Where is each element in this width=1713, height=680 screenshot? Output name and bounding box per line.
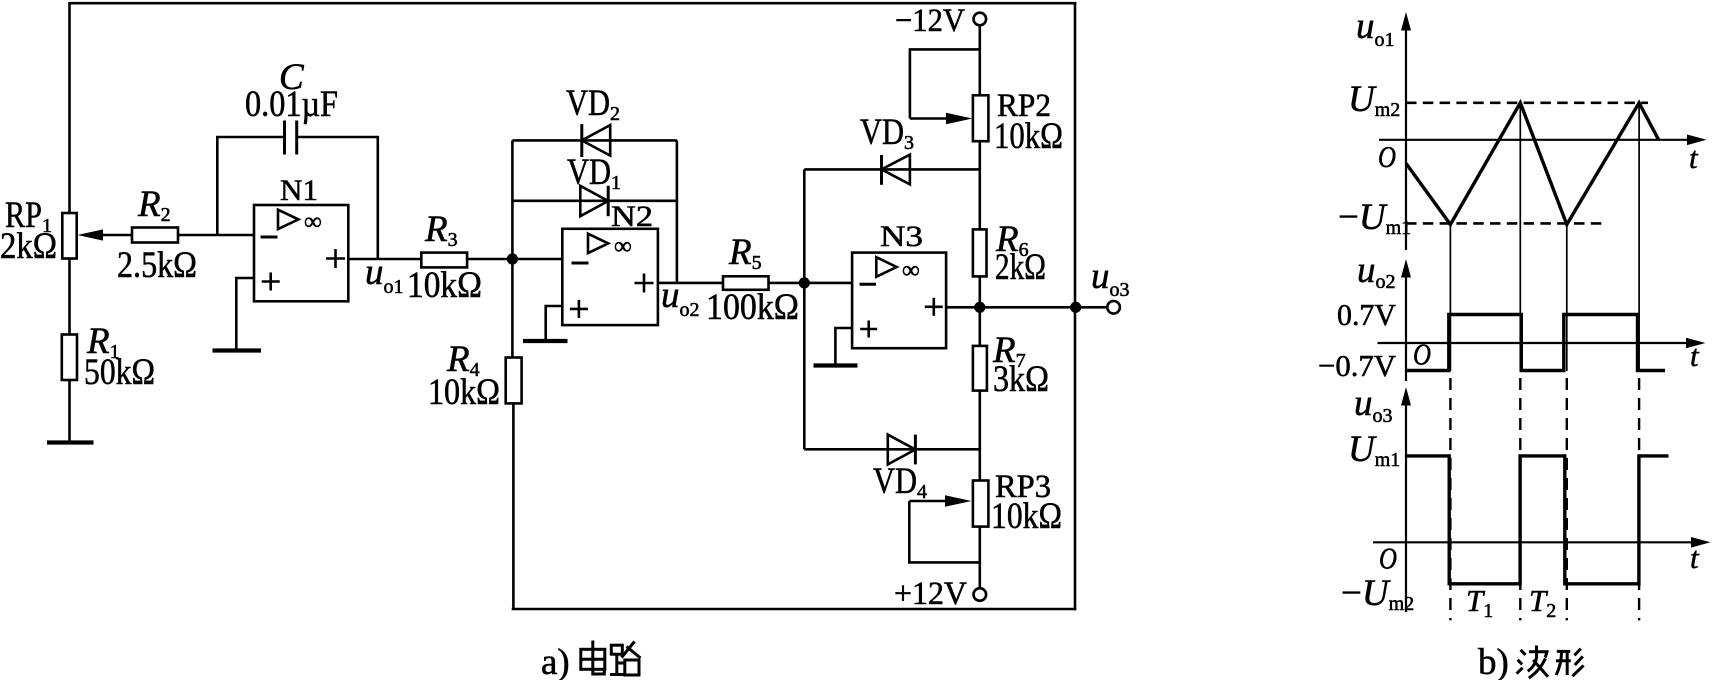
- svg-text:−Um2: −Um2: [1341, 573, 1414, 615]
- potentiometer RP2: [910, 88, 1063, 157]
- wire RP3 wiper short: [909, 501, 980, 562]
- resistor R2: [117, 184, 197, 286]
- diode VD3: [860, 112, 914, 185]
- svg-text:−0.7V: −0.7V: [1318, 348, 1397, 383]
- svg-text:O: O: [1413, 337, 1431, 372]
- wire N3 noninverting input to ground: [835, 328, 852, 364]
- wire left bus to RP1: [68, 2, 71, 214]
- svg-text:+12V: +12V: [894, 576, 967, 612]
- svg-text:0.7V: 0.7V: [1337, 297, 1397, 332]
- svg-text:b): b): [1478, 642, 1509, 680]
- svg-text:R2: R2: [137, 184, 171, 226]
- svg-text:T2: T2: [1529, 583, 1556, 622]
- plot3 square wave uo3: [1406, 456, 1669, 584]
- svg-text:N3: N3: [880, 220, 923, 253]
- wire R6 to output node: [978, 276, 981, 307]
- ground (R1): [47, 440, 94, 444]
- wire right feedback bus: [1074, 2, 1077, 610]
- wire RP2 to R6: [978, 141, 981, 229]
- svg-text:∞: ∞: [304, 209, 322, 236]
- svg-text:t: t: [1690, 338, 1700, 373]
- plot2 square wave uo2: [1406, 315, 1665, 371]
- potentiometer RP3: [909, 469, 1062, 537]
- waveform period marker solid t4: [1638, 103, 1640, 371]
- wire top feedback bus: [69, 2, 1077, 5]
- resistor R6: [973, 219, 1046, 288]
- terminal +12V: [894, 576, 986, 612]
- svg-text:VD4: VD4: [873, 461, 927, 503]
- caption glyph xing: [1556, 649, 1584, 677]
- wire output node to R7: [978, 307, 981, 346]
- node output junction 1: [974, 302, 985, 313]
- svg-text:uo3: uo3: [1091, 256, 1130, 301]
- svg-text:N1: N1: [280, 174, 318, 207]
- svg-text:Um2: Um2: [1348, 79, 1400, 121]
- waveform period marker solid t1: [1449, 225, 1451, 372]
- capacitor C: [245, 57, 338, 155]
- resistor R5: [706, 232, 799, 328]
- svg-text:O: O: [1378, 139, 1396, 174]
- svg-text:−12V: −12V: [895, 3, 965, 39]
- plot2 x-axis: [1378, 337, 1706, 374]
- waveform period marker dashed t2: [1519, 378, 1521, 620]
- ground (N1): [213, 348, 262, 352]
- svg-text:∞: ∞: [902, 257, 920, 284]
- svg-text:R3: R3: [424, 209, 458, 251]
- ground (N2): [523, 339, 568, 343]
- wire N1 output to R3: [348, 258, 421, 261]
- caption glyph bo: [1517, 646, 1548, 679]
- plot1 Um2 dashed level: [1406, 102, 1648, 105]
- wire RP3 to +12V: [978, 527, 981, 589]
- svg-text:−Um1: −Um1: [1338, 197, 1411, 239]
- resistor R1: [62, 321, 155, 393]
- wire VD3 branch: [804, 168, 980, 171]
- waveform period marker solid t2: [1519, 103, 1521, 371]
- resistor R4: [428, 339, 522, 413]
- svg-text:10kΩ: 10kΩ: [428, 372, 500, 413]
- plot1 y-axis: [1356, 6, 1411, 250]
- svg-text:VD1: VD1: [567, 152, 621, 194]
- svg-text:uo3: uo3: [1354, 383, 1393, 427]
- waveform period marker dashed t3: [1566, 378, 1568, 620]
- ground (N3): [814, 363, 858, 367]
- plot1 triangle wave uo1: [1406, 103, 1659, 225]
- svg-text:2kΩ: 2kΩ: [0, 226, 57, 267]
- terminal -12V: [895, 3, 986, 39]
- wire N2 noninverting input to ground: [546, 306, 563, 340]
- svg-text:O: O: [1379, 541, 1397, 576]
- svg-text:2kΩ: 2kΩ: [995, 247, 1046, 288]
- terminal uo3: [1091, 256, 1130, 314]
- wire N1 noninverting input to ground: [236, 278, 254, 349]
- svg-text:R5: R5: [728, 232, 762, 274]
- svg-text:uo1: uo1: [1356, 6, 1395, 51]
- wire RP1 to R1: [68, 259, 71, 335]
- waveform period marker solid t3: [1566, 225, 1568, 372]
- resistor R3: [407, 209, 482, 306]
- plot3 x-axis: [1373, 537, 1711, 576]
- wire R3 to N2 inverting input: [467, 258, 562, 261]
- svg-text:10kΩ: 10kΩ: [407, 265, 482, 306]
- plot1 x-axis: [1378, 135, 1707, 176]
- waveform period marker dashed t4: [1638, 378, 1640, 620]
- diode VD2: [566, 83, 620, 157]
- plot2 y-axis: [1357, 250, 1411, 381]
- resistor R7: [973, 330, 1049, 400]
- svg-text:50kΩ: 50kΩ: [84, 352, 155, 393]
- wire R1 to ground: [68, 380, 71, 441]
- waveform period marker dashed t1: [1449, 378, 1451, 620]
- wire node B vertical (VD3/VD4 loop): [803, 169, 806, 449]
- wire node A vertical (diode loop / R4): [511, 140, 514, 357]
- plot1 -Um1 dashed level: [1406, 222, 1602, 225]
- svg-text:T1: T1: [1466, 583, 1493, 622]
- svg-text:∞: ∞: [614, 233, 632, 260]
- wire -12V to RP2: [978, 25, 981, 95]
- wire N3 output: [946, 306, 1108, 309]
- svg-text:VD2: VD2: [566, 83, 620, 125]
- potentiometer RP1: [0, 195, 103, 267]
- wire RP1 wiper to R2: [98, 234, 132, 237]
- plot3 y-axis: [1354, 383, 1411, 612]
- svg-text:0.01µF: 0.01µF: [245, 84, 338, 125]
- op-amp N2: [562, 200, 658, 325]
- node output junction 2: [1070, 302, 1081, 313]
- svg-text:N2: N2: [611, 200, 653, 233]
- svg-text:t: t: [1689, 140, 1699, 175]
- wire VD2 branch: [512, 139, 677, 142]
- diode VD1: [567, 152, 621, 216]
- wire N2 output to R5: [658, 282, 723, 285]
- svg-text:10kΩ: 10kΩ: [991, 496, 1062, 537]
- svg-text:a): a): [541, 642, 570, 680]
- caption glyph dian: [581, 641, 605, 675]
- wire R2 to N1 inverting input: [178, 234, 254, 237]
- wire R7 to RP3: [978, 391, 981, 481]
- wire VD4 branch: [804, 448, 980, 451]
- node B junction: [799, 277, 810, 288]
- wire R4 to bottom bus: [512, 403, 515, 609]
- svg-text:VD3: VD3: [860, 112, 914, 154]
- svg-text:10kΩ: 10kΩ: [994, 116, 1063, 157]
- wire C feedback left: [217, 137, 284, 235]
- wire R5 to N3 inverting input: [769, 282, 853, 285]
- wire C feedback right: [297, 137, 378, 259]
- svg-text:t: t: [1690, 540, 1700, 575]
- svg-text:100kΩ: 100kΩ: [706, 287, 799, 328]
- wire VD1 branch: [512, 200, 677, 203]
- node A junction: [507, 253, 518, 264]
- svg-text:Um1: Um1: [1348, 429, 1400, 471]
- diode VD4: [873, 435, 927, 503]
- op-amp N3: [852, 220, 946, 348]
- wire RP2 wiper short: [910, 49, 980, 118]
- svg-text:uo2: uo2: [1357, 250, 1396, 293]
- op-amp N1: [254, 174, 348, 301]
- caption glyph lu: [610, 642, 641, 676]
- wire bottom feedback bus: [512, 608, 1077, 611]
- wire diode loop right vertical: [676, 140, 679, 283]
- svg-text:3kΩ: 3kΩ: [993, 359, 1049, 400]
- svg-text:2.5kΩ: 2.5kΩ: [117, 245, 197, 286]
